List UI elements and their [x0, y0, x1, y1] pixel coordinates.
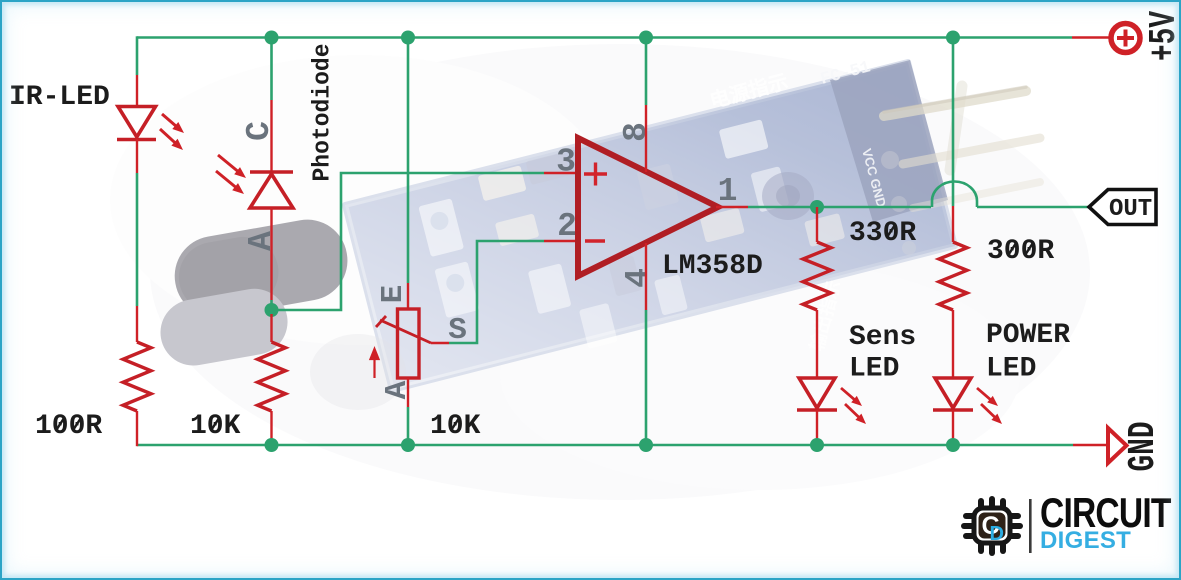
svg-text:DIGEST: DIGEST [1040, 527, 1131, 554]
svg-text:+5V: +5V [1143, 11, 1181, 61]
svg-text:8: 8 [618, 122, 655, 142]
node top bus / op-amp V+ [639, 31, 653, 45]
svg-text:1: 1 [718, 173, 738, 210]
svg-text:Photodiode: Photodiode [309, 44, 336, 182]
op-amp output pin 1 lead [716, 206, 748, 208]
wire output to hop [748, 206, 931, 209]
potentiometer RV1 10K body [398, 309, 420, 378]
op-amp pin 2 lead [544, 240, 578, 242]
potentiometer adjust arrow [371, 349, 379, 378]
wire photodiode cathode from top bus [270, 38, 273, 101]
resistor R1 100R [123, 342, 151, 411]
resistor R1 bottom lead [136, 411, 138, 446]
LED D4 cathode lead [952, 410, 954, 445]
svg-text:3: 3 [556, 144, 576, 181]
op-amp pin 3 lead [544, 172, 578, 174]
darker board corner near pins [830, 60, 948, 222]
IR-LED emission arrows [160, 114, 184, 150]
svg-text:4: 4 [620, 268, 657, 288]
wire ground feed [1073, 444, 1108, 446]
resistor R1 100R top lead [136, 306, 138, 342]
svg-text:D: D [990, 523, 1004, 545]
wire pot to bottom bus [407, 407, 410, 445]
IR-LED D1 [117, 107, 156, 140]
photodiode incident light arrows [216, 155, 246, 194]
wire top bus to R4 [952, 38, 955, 207]
svg-text:GND: GND [1122, 422, 1165, 472]
resistor R3 330R [803, 242, 831, 310]
wire hop to OUT [977, 206, 1089, 209]
photodiode anode lead [270, 208, 272, 300]
separator bar [1029, 499, 1032, 553]
svg-text:OUT: OUT [1109, 196, 1152, 223]
OUT port tag [1089, 190, 1156, 225]
svg-text:A: A [380, 380, 415, 399]
svg-text:IR-LED: IR-LED [9, 82, 110, 113]
wire left branch middle [136, 173, 139, 306]
potentiometer wiper [376, 316, 431, 343]
LED D3 Sens [797, 378, 837, 410]
resistor R3 bottom lead [816, 310, 818, 378]
resistor R4 300R [939, 242, 967, 310]
wire wiper S to op-amp pin 2 [449, 241, 544, 343]
LED D3 cathode lead [816, 410, 818, 445]
svg-text:300R: 300R [987, 236, 1054, 267]
chip icon pins [964, 499, 1020, 553]
node top bus / photodiode [265, 31, 279, 45]
logo CircuitDigest [964, 491, 1171, 554]
wire IR-LED cathode lead [136, 139, 138, 173]
wire hop over 300R branch [932, 182, 977, 208]
+5V supply symbol [1111, 24, 1140, 53]
potentiometer E lead [407, 283, 409, 309]
node bottom bus / D3 [810, 438, 824, 452]
photodiode cathode lead [270, 100, 272, 172]
node photodiode / R2 / feedback [265, 303, 279, 317]
svg-text:Sens: Sens [849, 322, 916, 353]
op-amp pin 8 lead [645, 105, 647, 172]
op-amp pin 4 lead [645, 243, 647, 310]
wire IR-LED anode lead [136, 75, 138, 107]
node output / R3 [810, 200, 824, 214]
node top bus / potentiometer [401, 31, 415, 45]
photodiode D2 [250, 172, 293, 208]
wire top bus to op-amp pin 8 [645, 38, 648, 106]
resistor R4 bottom lead [952, 310, 954, 378]
svg-text:E: E [376, 285, 411, 304]
header pins [881, 86, 1040, 255]
PCB board [345, 62, 955, 390]
LED D4 arrows [977, 388, 1002, 424]
op-amp - input marker [585, 239, 605, 243]
LED D4 POWER [933, 378, 973, 410]
node top bus / 300R branch [946, 31, 960, 45]
wire top bus to potentiometer E [407, 38, 410, 284]
svg-text:LM358D: LM358D [662, 251, 763, 282]
svg-text:100R: 100R [35, 411, 102, 442]
svg-text:LED: LED [986, 354, 1036, 385]
op-amp + input marker [584, 163, 607, 186]
svg-text:POWER: POWER [986, 320, 1070, 351]
op-amp U1 LM358D [578, 138, 718, 276]
potentiometer A lead [407, 378, 409, 407]
wire node A to op-amp pin 3 [272, 173, 545, 310]
resistor R2 bottom lead [270, 411, 272, 445]
chip icon body [974, 508, 1010, 543]
node bottom bus / pot [401, 438, 415, 452]
resistor R4 300R top lead [952, 206, 954, 242]
wire op-amp pin 4 to bottom bus [645, 310, 648, 445]
black IR emitter capsule [168, 213, 353, 323]
svg-text:A: A [243, 231, 280, 251]
gray blur right of capsules [310, 334, 406, 410]
resistor R2 10K top lead [270, 314, 272, 342]
LED D3 arrows [841, 388, 866, 424]
svg-text:C: C [241, 121, 278, 141]
svg-text:2: 2 [557, 208, 577, 245]
resistor R3 330R top lead [816, 207, 818, 242]
node bottom bus / D4 [946, 438, 960, 452]
wire left branch top (to IR-LED) [136, 36, 139, 75]
svg-text:10K: 10K [430, 411, 481, 442]
resistor R2 10K [258, 342, 286, 411]
wire to node A [270, 300, 273, 312]
node bottom bus / op-amp V- [639, 438, 653, 452]
svg-text:330R: 330R [849, 218, 916, 249]
ground port symbol [1108, 428, 1127, 463]
svg-text:10K: 10K [190, 411, 241, 442]
clear receiver capsule [155, 284, 293, 371]
wire top bus [137, 36, 1072, 39]
wire bottom bus (ground rail) [137, 444, 1073, 447]
wire +5V feed [1072, 36, 1110, 38]
node bottom bus / R2 [265, 438, 279, 452]
svg-text:LED: LED [849, 354, 899, 385]
potentiometer wiper lead S [431, 342, 449, 344]
